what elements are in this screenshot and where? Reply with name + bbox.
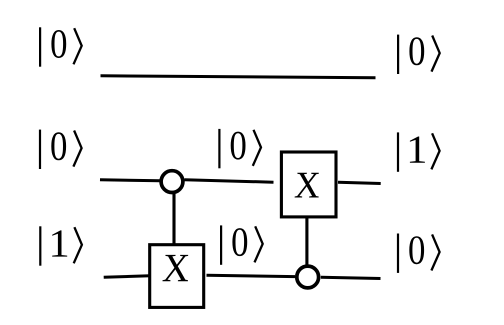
ket |1> output q1 bbox=[397, 132, 440, 171]
X gate box G1 on q1 bbox=[281, 152, 336, 217]
qubit wire q2 left segment bbox=[104, 276, 150, 278]
ket |0> input q0 bbox=[39, 27, 82, 66]
qubit wire q2 right segment bbox=[321, 277, 381, 278]
X gate label G1 bbox=[295, 173, 319, 198]
node label ket |0> on q2 wire bbox=[220, 225, 263, 264]
qubit wire q1 middle segment bbox=[185, 180, 274, 182]
ket |0> output q0 bbox=[397, 35, 440, 74]
qubit wire q1 right segment bbox=[338, 182, 381, 183]
ket |0> output q2 bbox=[397, 234, 440, 273]
qubit wire q0 bbox=[101, 76, 376, 78]
vertical connector G1 to c2 bbox=[305, 218, 308, 266]
node label ket |0> on q1 wire bbox=[218, 129, 261, 168]
X gate box G2 on q2 bbox=[150, 245, 204, 308]
control circle c2 on q2 bbox=[297, 266, 319, 288]
qubit wire q2 middle segment bbox=[207, 275, 296, 276]
X gate label G2 bbox=[163, 255, 189, 281]
vertical connector c1 to G2 bbox=[172, 191, 175, 245]
ket |1> input q2 bbox=[39, 226, 82, 265]
ket |0> input q1 bbox=[39, 130, 82, 169]
control circle c1 on q1 bbox=[161, 171, 183, 193]
qubit wire q1 left segment bbox=[100, 180, 160, 181]
